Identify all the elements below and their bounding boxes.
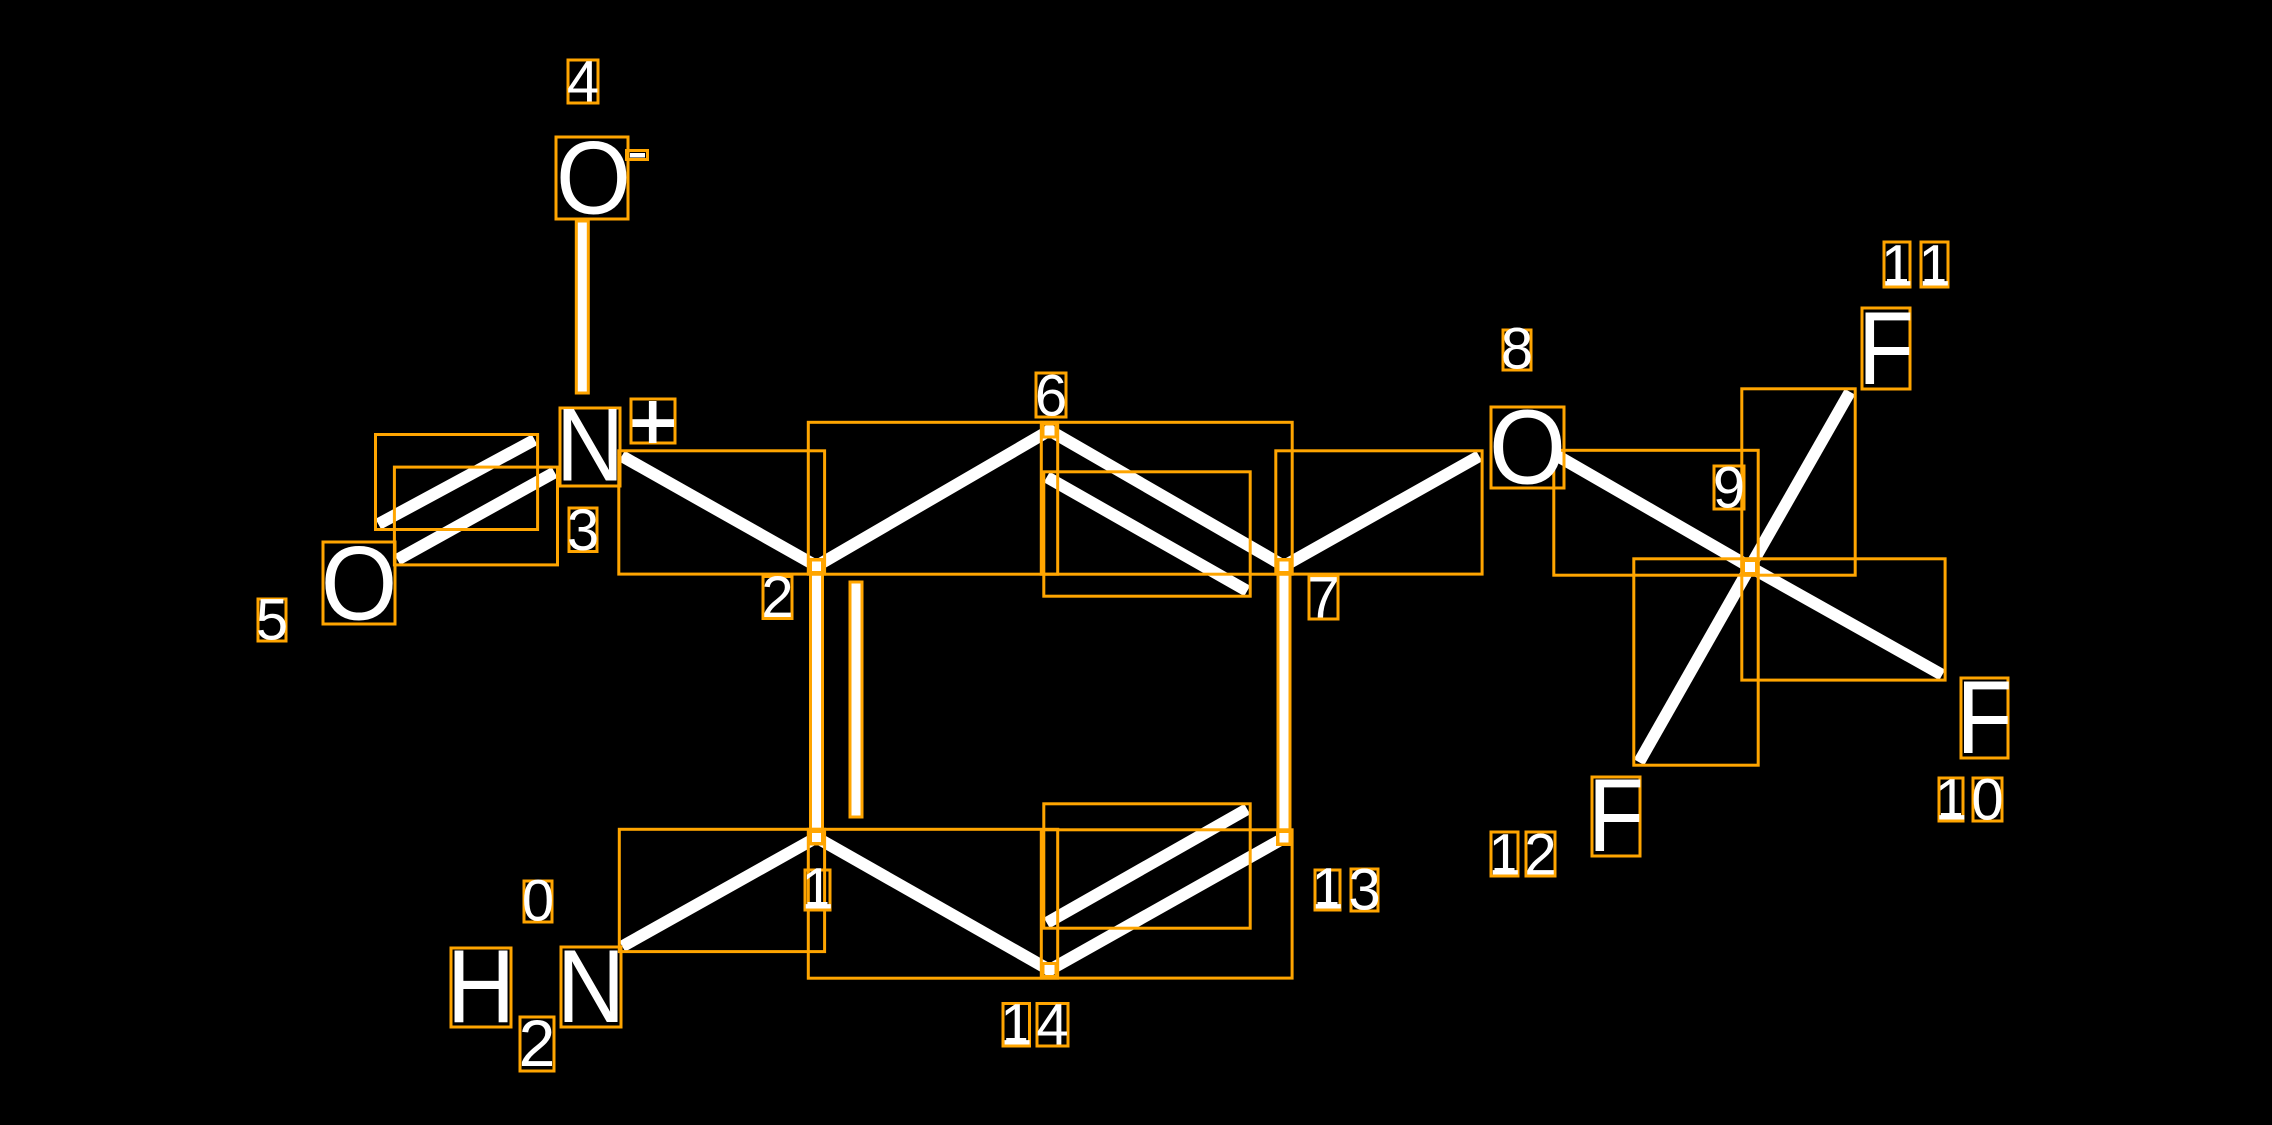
box of bond 9-12 (C9-F) — [1634, 559, 1758, 765]
box of bond 7-8 (C7-O) — [1276, 451, 1482, 574]
bond 7-8 (C7-O) — [1284, 459, 1474, 566]
svg-text:H: H — [447, 929, 515, 1045]
bond 13-14 inner — [1052, 812, 1242, 920]
box of bond 3-5 line a — [376, 435, 538, 530]
bond 9-11 (C9-F) — [1750, 397, 1847, 567]
bond 1-2 inner — [850, 588, 862, 811]
label 10 — [1939, 778, 1963, 821]
box of bond 14-1 — [808, 829, 1057, 978]
label 8 — [1503, 330, 1531, 370]
atom 3 plus sign — [633, 419, 675, 427]
bond 9-10 (C9-F) — [1750, 567, 1937, 672]
svg-text:1: 1 — [1881, 234, 1913, 299]
atom 0 H box — [451, 948, 511, 1027]
atom 5 O box — [323, 542, 395, 624]
box of bond 2-3 (C2-N+) — [619, 451, 825, 574]
box of bond 3-5 line b — [394, 467, 557, 565]
bond 3-5 line a — [384, 443, 530, 522]
atom 4 O box — [556, 137, 628, 219]
svg-text:2: 2 — [519, 1006, 556, 1080]
bond 14-1 — [817, 838, 1050, 971]
box of bond 8-9 (O-C9) — [1554, 450, 1758, 575]
svg-text:1: 1 — [1918, 234, 1950, 299]
bond 1-2 main — [811, 566, 823, 838]
atom 7 C box — [1278, 560, 1291, 573]
atom 13 C box — [1278, 832, 1291, 845]
bond 2-6 — [817, 431, 1050, 567]
svg-text:O: O — [556, 120, 631, 236]
bond 6-7 inner — [1052, 480, 1242, 588]
svg-text:5: 5 — [256, 588, 288, 653]
svg-text:7: 7 — [1307, 566, 1339, 631]
bond 7-13 — [1278, 566, 1290, 838]
svg-text:9: 9 — [1713, 456, 1745, 521]
label 1 — [805, 870, 830, 910]
label 4 — [568, 60, 598, 103]
box of bond 0-1 (N-C1) — [619, 829, 824, 951]
box of bond 6-7 main — [1041, 422, 1292, 574]
box of bond 9-10 (C9-F) — [1742, 559, 1945, 680]
box of bond 13-14 main — [1041, 830, 1292, 978]
label 12 — [1491, 832, 1518, 876]
box of bond 1-2 main — [811, 560, 823, 844]
svg-text:F: F — [1957, 659, 2013, 776]
svg-text:1: 1 — [1935, 768, 1967, 833]
atom 10 F box — [1961, 678, 2008, 758]
label 9 — [1714, 466, 1744, 509]
box of bond 7-13 — [1278, 560, 1290, 844]
box of bond 9-11 (C9-F) — [1742, 389, 1855, 575]
box of bond 6-7 inner — [1044, 472, 1250, 596]
atom 11 F box — [1862, 308, 1910, 389]
atom 6 C box — [1043, 424, 1056, 437]
svg-text:8: 8 — [1501, 317, 1533, 382]
bond 2-3 (C2-N+) — [627, 459, 817, 566]
label 5 — [258, 599, 286, 641]
atom 3 plus box — [631, 399, 675, 443]
label 3 — [569, 508, 597, 552]
bond 0-1 (N-C1) — [628, 838, 817, 944]
svg-text:O: O — [1489, 387, 1566, 506]
box of bond 13-14 inner — [1044, 804, 1250, 928]
svg-text:O: O — [321, 525, 398, 643]
svg-text:1: 1 — [1488, 823, 1520, 888]
atom 9 C box — [1744, 561, 1757, 574]
label 2 — [763, 577, 792, 619]
bond 3-5 line b — [403, 475, 550, 557]
svg-text:1: 1 — [801, 857, 833, 922]
atom 3 N box — [560, 408, 620, 486]
bond 8-9 (O-C9) — [1562, 459, 1750, 568]
label 13 — [1315, 870, 1340, 910]
atom 2 C box — [811, 560, 824, 573]
svg-text:N: N — [556, 388, 624, 504]
svg-text:1: 1 — [1311, 857, 1343, 922]
svg-text:0: 0 — [522, 869, 554, 934]
svg-text:4: 4 — [567, 50, 599, 115]
label 14 — [1003, 1004, 1030, 1047]
atom 4 minus box — [627, 151, 648, 160]
bond 6-7 main — [1050, 431, 1285, 567]
atom 1 C box — [810, 832, 823, 845]
svg-text:0: 0 — [1971, 768, 2003, 833]
label 0 — [524, 881, 552, 922]
svg-text:3: 3 — [1348, 858, 1380, 923]
atom 0 sub2 box — [520, 1017, 554, 1071]
label 7 — [1309, 576, 1338, 619]
svg-text:4: 4 — [1036, 993, 1068, 1058]
atom 4 minus sign — [630, 153, 645, 158]
bond 3-4 (N+-O-) — [576, 227, 588, 387]
box of bond 1-2 inner — [850, 582, 862, 817]
box of bond 2-6 — [808, 422, 1057, 574]
bond 9-12 (C9-F) — [1642, 567, 1750, 757]
svg-text:2: 2 — [761, 565, 793, 630]
svg-text:6: 6 — [1035, 364, 1067, 429]
bond 13-14 main — [1050, 838, 1285, 970]
svg-text:N: N — [557, 929, 625, 1045]
atom 0 N box — [561, 947, 621, 1027]
svg-text:3: 3 — [567, 498, 599, 563]
atom 14 C box — [1043, 964, 1056, 977]
box of bond 3-4 (N+-O-) — [576, 221, 588, 393]
svg-text:F: F — [1588, 757, 1644, 874]
atom 8 O box — [1491, 407, 1564, 488]
label 6 — [1036, 373, 1066, 417]
svg-text:1: 1 — [1000, 993, 1032, 1058]
label 11 — [1884, 242, 1910, 287]
svg-text:2: 2 — [1524, 823, 1556, 888]
atom 12 F box — [1592, 777, 1640, 856]
svg-text:F: F — [1858, 290, 1914, 407]
